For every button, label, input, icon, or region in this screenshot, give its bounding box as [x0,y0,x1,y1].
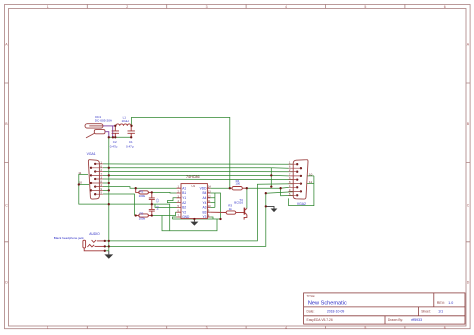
svg-text:4: 4 [285,5,287,9]
connector VGA2 pin pads [296,163,302,196]
capacitor C4 [149,204,155,215]
connector VGA1 pin stubs [91,164,103,194]
node shield net corner [78,183,80,185]
wire T3 collector vertical [246,188,248,208]
IC U1 left pin names [182,186,190,219]
resistor R4 [230,187,247,190]
svg-text:TITLE:: TITLE: [307,294,316,298]
IC U1 pin numbers [178,186,212,218]
ground at audio jack [104,251,113,259]
node R2 left [135,214,137,216]
svg-text:1k: 1k [229,207,233,211]
node R2/C4/Y2 [151,214,153,216]
wire GND bus vertical from DC jack down to audio ground [108,137,110,251]
svg-text:C2: C2 [113,140,117,144]
svg-text:A1: A1 [182,186,186,190]
IC U1 right pin names [200,186,207,219]
svg-text:10: 10 [309,172,313,176]
svg-text:BC516: BC516 [234,201,243,205]
wire IC ground row [172,218,220,220]
svg-text:B3: B3 [202,210,206,214]
node IC ground stem [193,218,195,220]
wire R1 to IC pin B1 [152,191,177,194]
svg-text:1/1: 1/1 [438,309,443,313]
svg-text:2: 2 [126,326,128,330]
svg-text:A4: A4 [202,196,206,200]
node VGA2 ground net [270,174,272,176]
wire GND pin jog [172,217,176,219]
connector AUDIO headphone jack symbol [83,240,105,251]
wire R2/C4 node to IC pin Y2 [152,212,177,215]
svg-text:B2: B2 [182,206,186,210]
svg-text:1: 1 [47,326,49,330]
svg-text:Date:: Date: [307,309,315,313]
wire VGA1 ground row 2 [103,167,271,169]
svg-text:Black headphone jack: Black headphone jack [54,236,84,240]
svg-text:GND: GND [182,215,190,219]
wire VDD pin to R4 [210,187,230,189]
svg-text:Y4: Y4 [202,201,206,205]
node R1/C3/B1 [151,191,153,193]
svg-text:6: 6 [444,326,446,330]
connector DC1 pin leads (purple) [103,126,115,137]
wire tie loop down to ground row [215,193,221,219]
wire VGA1 pin row R to VGA2 [103,163,293,165]
ground under IC [190,219,198,226]
node R4 left / VDD / VCC [229,187,231,189]
node C3/C4 midpoint [151,203,153,205]
transistor T3 BC516 [244,208,247,220]
resistor R2 [136,214,152,217]
node gnd row under jack [108,136,110,138]
svg-text:Drawn By:: Drawn By: [388,318,403,322]
svg-text:C1: C1 [129,140,133,144]
svg-text:New Schematic: New Schematic [308,301,347,307]
wire VGA1 pin row B to VGA2 [103,178,293,181]
svg-text:U1: U1 [192,184,196,188]
svg-text:5: 5 [364,326,366,330]
capacitor C1 [128,126,135,138]
wire VGA1 pins 11,10 shield net down and right [79,174,170,230]
wire audio R to VGA2 [105,192,293,247]
svg-text:R1: R1 [140,190,144,194]
wire audio sleeve to ground [105,250,109,252]
wire VCC from L1/C1 up and across to VDD/R4 row [132,117,230,188]
svg-text:B1: B1 [182,191,186,195]
node L1 right / C1 top / VCC [130,125,132,127]
connector VGA2 body [293,160,308,199]
svg-text:B4: B4 [202,191,206,195]
IC U1 pin stubs right [207,188,210,217]
node gnd bus at VGA1 ground rows [108,167,110,169]
svg-text:R2: R2 [140,212,144,216]
svg-text:4: 4 [285,326,287,330]
svg-text:VDD: VDD [200,186,207,190]
wire VGA1 ground stub row 6 [103,182,109,184]
svg-text:EasyEDA V5.7.26: EasyEDA V5.7.26 [307,318,333,322]
svg-text:C3: C3 [155,199,159,203]
svg-text:100: 100 [235,181,240,185]
svg-text:2018-10-09: 2018-10-09 [327,309,344,313]
inductor L1 [116,124,131,126]
wire Y1 to A2 stair [167,198,176,203]
svg-text:A2: A2 [182,201,186,205]
wire VGA2 ground chain to stub row4 [271,174,288,177]
wire HSync from VGA1 to IC pin A1 [103,187,177,189]
title block [304,293,465,324]
node audio pins [104,240,106,242]
IC U1 pin stubs left [177,188,182,217]
capacitor C3 [149,192,155,204]
svg-text:100k: 100k [139,216,146,220]
svg-text:VGA1: VGA1 [87,152,96,156]
svg-text:3: 3 [206,5,208,9]
wire sync output R4/T3 to VGA2 pin stubs [247,187,297,195]
frame row letters [5,43,470,285]
svg-text:3: 3 [206,326,208,330]
svg-text:C4: C4 [155,206,159,210]
connector VGA1 pin pads [90,163,97,196]
node L1 left / C2 top [114,125,116,127]
wire VGA2 shield pins 10,11 loop [289,176,314,206]
resistor R1 [136,188,152,194]
connector VGA2 pin stubs [289,164,301,195]
node IC ground row right [219,218,221,220]
svg-text:11: 11 [78,171,81,175]
svg-text:1: 1 [47,5,49,9]
wire VGA2 ground chain to stub row2 [271,167,288,169]
svg-text:10uH: 10uH [122,119,129,123]
capacitor C2 [112,126,119,138]
svg-text:Sheet:: Sheet: [421,309,431,313]
svg-text:DC-005-20A: DC-005-20A [95,118,113,122]
wire VGA1 pin10 stub [79,184,89,186]
wire VGA2 ground chain vertical [270,168,272,187]
connector VGA1 pin numbers [101,161,103,194]
svg-text:100k: 100k [139,194,146,198]
wire unused input ties right of IC [210,193,215,207]
wire VGA1 pin row G to VGA2 [103,171,293,173]
svg-text:0.47μ: 0.47μ [110,145,118,149]
svg-text:AUDIO: AUDIO [89,232,100,236]
node audio R branch [265,192,267,194]
wire bottom loop under IC [162,216,217,231]
connector VGA1 body [88,160,99,199]
svg-text:Y3: Y3 [202,215,206,219]
svg-text:Y2: Y2 [182,210,186,214]
node R4 right / collector [246,187,248,189]
svg-text:6: 6 [444,5,446,9]
svg-text:11: 11 [309,180,312,184]
svg-text:rff5933: rff5933 [411,318,422,322]
wire B2 jog to cap mid net [155,204,177,207]
wire VGA1 ground row 4 [103,174,271,176]
svg-text:VGA2: VGA2 [297,202,306,206]
connector VGA2 pin numbers [289,162,291,196]
svg-text:1.0: 1.0 [448,301,453,305]
node sync branch [279,187,281,189]
ground under VGA2 [266,206,278,212]
wire VSync from VGA1 down to R2 [103,194,135,216]
svg-text:5: 5 [364,5,366,9]
connector DC1 barrel jack symbol [85,124,105,138]
svg-text:74HC86: 74HC86 [186,175,200,179]
wire GND row under DC jack [109,136,131,138]
wire Y3 pin hook to ground row [210,217,213,219]
svg-text:2: 2 [126,5,128,9]
wire VGA1 ground stub row 8 [103,189,109,191]
svg-text:0.47μ: 0.47μ [126,145,134,149]
resistor R3 [210,211,244,214]
wire audio L to VGA2 [105,184,293,241]
svg-text:A3: A3 [202,206,206,210]
IC U1 body [181,184,207,219]
node HSync / R1 [135,187,137,189]
svg-text:REV:: REV: [437,301,445,305]
svg-text:Y1: Y1 [182,196,186,200]
